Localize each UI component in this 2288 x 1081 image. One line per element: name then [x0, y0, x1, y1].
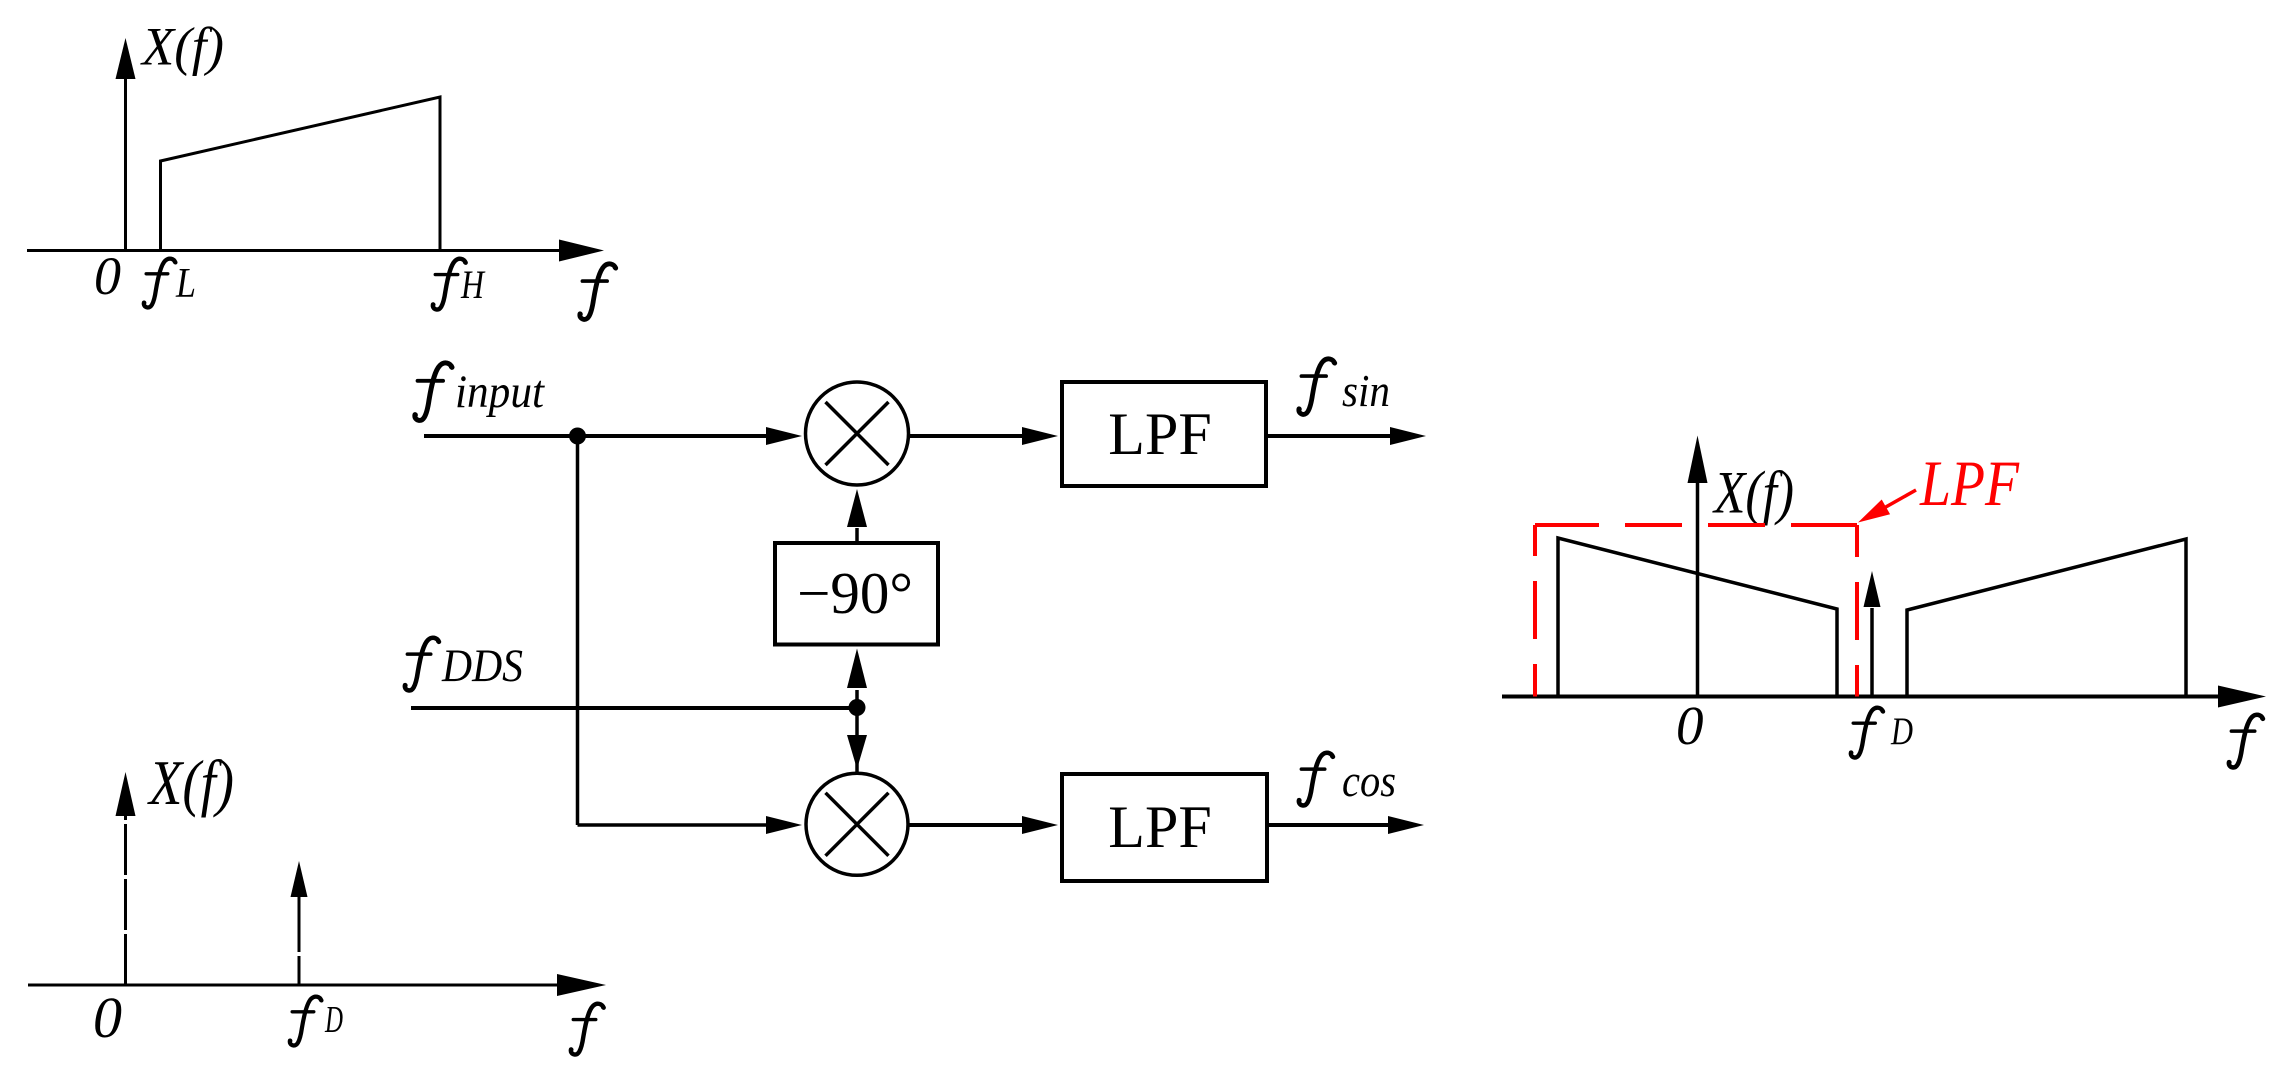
LPF2 box: [1062, 774, 1267, 881]
svg-text:−90°: −90°: [797, 560, 913, 626]
wire: f DDS line: [411, 706, 857, 710]
plot3 right (sum) spectrum trapezoid: [1907, 539, 2186, 695]
arrow into LPF1: [1022, 427, 1058, 445]
f input label: [413, 363, 545, 421]
svg-text:LPF: LPF: [1108, 794, 1211, 860]
svg-text:D: D: [1890, 710, 1913, 753]
plot3 vertical X(f) axis: [1688, 436, 1708, 697]
svg-text:X(f): X(f): [146, 748, 234, 818]
svg-text:LPF: LPF: [1919, 448, 2020, 520]
mixer U1 (multiplier): [806, 382, 909, 485]
arrow into mixer U1 bottom: [847, 489, 867, 527]
wire: mixer U1 to LPF1: [908, 434, 1026, 438]
svg-text:input: input: [455, 366, 545, 418]
arrow into mixer U2 left: [766, 816, 802, 834]
wire: mixer U2 to LPF2: [908, 823, 1026, 827]
wire: LPF2 output: [1268, 823, 1390, 827]
wire: branch down from J1: [576, 436, 580, 825]
LPF passband mask (red dashed) top edge: [1535, 523, 1857, 527]
plot1 vertical X(f) axis: [116, 38, 136, 251]
plot2 horizontal f axis: [28, 974, 606, 996]
wire: f input line: [424, 434, 770, 438]
wire: phase box to mixer U1: [855, 528, 859, 541]
svg-text:sin: sin: [1342, 365, 1390, 416]
arrow f cos output: [1388, 816, 1424, 834]
mixer U2 (multiplier): [806, 773, 908, 875]
f cos label: [1297, 753, 1396, 806]
plot3 label fD: [1849, 708, 1913, 758]
plot1 label fH: [431, 259, 486, 310]
svg-text:0: 0: [1676, 695, 1704, 756]
arrow into mixer U2 top: [847, 735, 867, 769]
svg-text:LPF: LPF: [1108, 401, 1211, 467]
plot3 horizontal f axis: [1502, 686, 2266, 708]
plot1 label fL: [142, 259, 196, 308]
plot3 f axis label: [2227, 715, 2265, 768]
svg-text:0: 0: [94, 246, 121, 306]
junction node J1 on input line: [569, 428, 586, 445]
wire: J2 down to mixer U2: [855, 708, 859, 772]
plot1 spectrum trapezoid fL-fH: [161, 97, 441, 249]
plot2 vertical X(f) axis (dashed): [116, 772, 136, 985]
phase shifter box -90deg: [775, 543, 938, 645]
svg-text:L: L: [175, 261, 196, 307]
LPF1 box: [1062, 382, 1266, 486]
svg-text:X(f): X(f): [1712, 460, 1794, 526]
plot1 f axis label: [578, 264, 618, 320]
arrow into phase box bottom: [847, 649, 867, 689]
wire: LPF1 output: [1268, 434, 1392, 438]
plot2 impulse at fD (dashed): [291, 861, 308, 985]
plot2 f axis label: [569, 1004, 605, 1055]
svg-text:D: D: [324, 999, 343, 1041]
wire: branch to mixer U2: [578, 823, 769, 827]
f DDS label: [403, 638, 523, 692]
plot3 left (difference) spectrum trapezoid: [1558, 538, 1837, 695]
f sin label: [1297, 359, 1390, 416]
plot1 horizontal f axis: [27, 240, 604, 262]
arrow f sin output: [1390, 427, 1426, 445]
LPF passband mask (red dashed) left edge: [1533, 525, 1537, 697]
arrow into LPF2: [1022, 816, 1058, 834]
svg-text:0: 0: [93, 985, 122, 1050]
plot3 impulse at fD: [1864, 571, 1881, 695]
svg-text:DDS: DDS: [441, 640, 523, 692]
svg-text:H: H: [460, 262, 485, 307]
plot2 label fD: [288, 997, 343, 1046]
red callout arrow to mask corner: [1858, 490, 1916, 523]
wire: J2 up to phase box: [855, 690, 859, 708]
LPF passband mask (red dashed) right edge: [1855, 525, 1859, 697]
arrow into mixer U1: [766, 427, 802, 445]
svg-text:cos: cos: [1342, 755, 1396, 806]
svg-text:X(f): X(f): [140, 17, 224, 77]
junction node J2 on DDS line: [849, 699, 866, 716]
